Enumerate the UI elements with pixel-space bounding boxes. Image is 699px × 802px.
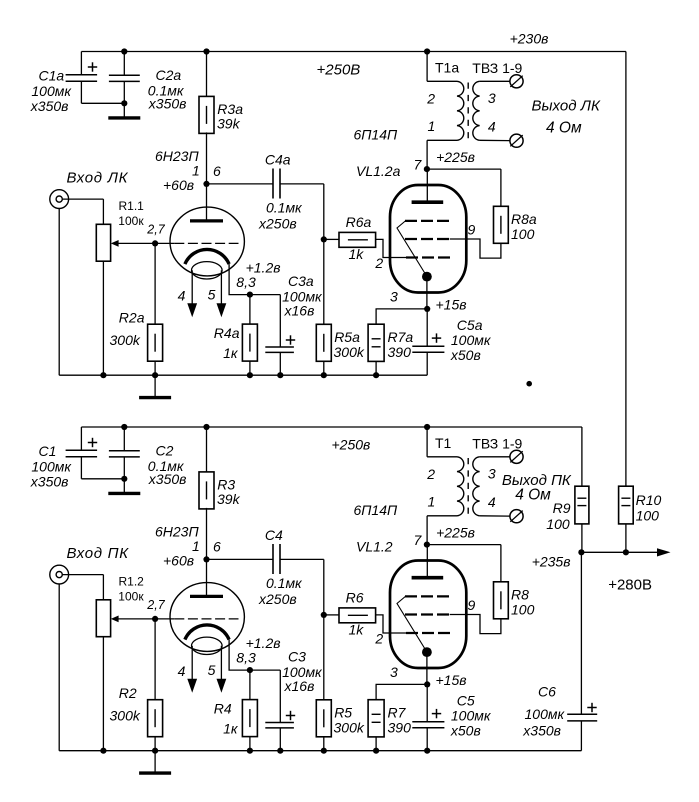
- svg-text:C3a: C3a: [288, 273, 314, 289]
- pentode grid2 dashes: [405, 238, 449, 240]
- svg-text:х350в: х350в: [522, 723, 561, 739]
- transformer Т1а secondary: [473, 81, 480, 140]
- svg-text:9: 9: [468, 221, 476, 237]
- capacitor C3a: [250, 294, 280, 296]
- wire: jack hot to pot top: [62, 574, 103, 576]
- capacitor C2: [123, 427, 125, 451]
- pentode grid1 dashes: [406, 256, 450, 258]
- svg-text:х250в: х250в: [258, 591, 297, 607]
- svg-text:100мк: 100мк: [525, 706, 566, 722]
- svg-text:C2: C2: [156, 442, 174, 458]
- output terminal bottom: [510, 510, 523, 523]
- svg-text:C6: C6: [538, 684, 556, 700]
- resistor R2: [154, 619, 156, 700]
- node: +235в junction at R9: [578, 549, 584, 555]
- node: C5 ground junction: [424, 748, 430, 754]
- transformer Т1а primary: [426, 52, 428, 82]
- triode anode lead: [206, 184, 208, 221]
- svg-text:+280В: +280В: [608, 576, 652, 593]
- svg-text:R7: R7: [388, 705, 407, 721]
- node: rail junction at C2: [121, 424, 127, 430]
- wire: node7 to R8 top: [427, 544, 501, 546]
- svg-text:4 Ом: 4 Ом: [546, 120, 582, 137]
- svg-text:R5: R5: [334, 705, 352, 721]
- node: rail junction at R3: [203, 48, 209, 54]
- triode cathode arc: [185, 625, 229, 640]
- svg-text:7: 7: [414, 532, 423, 548]
- triode grid dashed line: [155, 242, 174, 244]
- wire: pot bottom to ground rail: [102, 637, 104, 751]
- node: anode +60в junction: [203, 556, 209, 562]
- node: pot ground junction: [100, 748, 106, 754]
- svg-text:6: 6: [213, 539, 221, 555]
- svg-text:7: 7: [414, 157, 423, 173]
- arrow to +280В supply: [657, 548, 671, 556]
- svg-text:1: 1: [428, 494, 436, 510]
- potentiometer R1.1: [96, 224, 110, 261]
- wire: wiper to grid node: [118, 618, 155, 620]
- svg-text:3: 3: [488, 466, 496, 482]
- resistor R2a: [154, 243, 156, 324]
- capacitor C5: [426, 684, 428, 721]
- stray junction dot: [526, 381, 532, 387]
- svg-text:3: 3: [390, 288, 398, 304]
- heater arrow pin 4: [187, 679, 197, 693]
- triode anode lead: [206, 559, 208, 596]
- resistor R6a: [324, 238, 339, 240]
- svg-text:+225в: +225в: [436, 149, 475, 165]
- triode heater ellipse: [192, 637, 223, 654]
- wire: wiper to grid node: [118, 242, 155, 244]
- svg-text:5: 5: [208, 287, 216, 303]
- svg-text:х50в: х50в: [450, 723, 481, 739]
- node: C1/C2 ground junction: [121, 476, 127, 482]
- svg-text:х350в: х350в: [148, 96, 187, 112]
- svg-text:Вход ПК: Вход ПК: [67, 545, 130, 562]
- svg-text:х350в: х350в: [30, 98, 69, 114]
- resistor R7: [376, 683, 428, 685]
- wire: R10 bottom to +235в node: [625, 524, 627, 552]
- transformer core: [467, 458, 469, 514]
- transformer core: [467, 83, 469, 139]
- pentode grid2 dashes: [405, 613, 449, 615]
- node: C3 ground junction: [277, 372, 283, 378]
- heater arrow pin 4: [187, 303, 197, 317]
- capacitor C3: [250, 669, 280, 671]
- node: R7 ground junction: [373, 748, 379, 754]
- node: anode node 7: [424, 542, 430, 548]
- svg-text:6П14П: 6П14П: [354, 502, 399, 518]
- svg-text:2: 2: [426, 91, 435, 107]
- pentode grid1 dashes: [406, 632, 450, 634]
- capacitor C1a: [80, 52, 82, 75]
- node: grid node 2,7: [152, 616, 158, 622]
- svg-text:0.1мк: 0.1мк: [266, 575, 303, 591]
- node: grid node 2,7: [152, 240, 158, 246]
- capacitor C2a: [123, 52, 125, 76]
- output terminal top: [510, 450, 523, 463]
- ground under C2: [123, 479, 125, 494]
- resistor R6: [324, 614, 339, 616]
- resistor R9: [575, 486, 589, 524]
- svg-text:100мк: 100мк: [31, 459, 72, 475]
- node: cathode junction 8,3: [247, 667, 253, 673]
- pentode anode bar: [412, 576, 444, 580]
- wire: bottom rail corner down to R9: [581, 427, 583, 486]
- svg-text:R6: R6: [346, 590, 364, 606]
- wire: screen grid pin 9 to R8 bottom: [450, 615, 501, 634]
- svg-text:Т1а: Т1а: [435, 60, 459, 76]
- svg-text:2,7: 2,7: [146, 223, 165, 237]
- ground symbol below R2: [154, 751, 156, 773]
- heater lead pin 5: [220, 646, 222, 680]
- svg-text:2,7: 2,7: [146, 598, 165, 612]
- svg-text:R6a: R6a: [346, 214, 372, 230]
- resistor R5a: [323, 239, 325, 324]
- node: rail junction at transformer: [424, 424, 430, 430]
- resistor R10: [619, 486, 634, 524]
- resistor R5: [323, 615, 325, 700]
- resistor R8a: [494, 206, 509, 243]
- svg-text:C2a: C2a: [156, 67, 182, 83]
- svg-text:4: 4: [488, 494, 496, 510]
- node: rail junction at R3: [203, 424, 209, 430]
- svg-text:+15в: +15в: [436, 672, 467, 688]
- pentode grid3 dashes: [405, 220, 449, 222]
- svg-text:R3: R3: [217, 476, 235, 492]
- svg-text:39k: 39k: [217, 116, 241, 132]
- node: R4 ground junction: [247, 372, 253, 378]
- svg-text:R4a: R4a: [214, 325, 240, 341]
- node: cathode node +15в: [424, 306, 430, 312]
- svg-text:4 Ом: 4 Ом: [515, 486, 551, 503]
- svg-text:R7a: R7a: [388, 329, 414, 345]
- node: grid junction of output tube: [321, 236, 327, 242]
- resistor R3: [206, 427, 208, 472]
- svg-text:+250в: +250в: [332, 436, 371, 452]
- pentode g3-cathode tie: [397, 221, 427, 277]
- svg-text:х250в: х250в: [258, 216, 297, 232]
- wire: +250V supply rail (right channel): [81, 426, 582, 428]
- wire: node7 to R8 top: [427, 168, 501, 170]
- svg-text:VL1.2: VL1.2: [356, 539, 393, 555]
- triode anode bar: [190, 595, 223, 598]
- svg-text:1: 1: [428, 118, 436, 134]
- wire: cathode to 8,3 node: [229, 264, 250, 295]
- svg-text:1k: 1k: [349, 622, 365, 638]
- transformer Т1 secondary: [473, 457, 480, 516]
- wire: screen grid pin 9 to R8 bottom: [450, 239, 501, 258]
- svg-text:х16в: х16в: [284, 303, 315, 319]
- svg-text:R9: R9: [553, 500, 571, 516]
- node: cathode junction 8,3: [247, 292, 253, 298]
- triode heater ellipse: [192, 262, 223, 279]
- node: grid junction of output tube: [321, 612, 327, 618]
- output terminal top: [510, 75, 523, 88]
- svg-text:C5a: C5a: [457, 317, 483, 333]
- svg-text:C4: C4: [265, 527, 283, 543]
- pentode anode lead: [426, 169, 428, 202]
- wire: right bus +230в down to R10: [625, 52, 627, 487]
- node: cathode node +15в: [424, 681, 430, 687]
- svg-text:C5: C5: [457, 693, 475, 709]
- svg-text:R1.1: R1.1: [119, 199, 145, 213]
- output terminal bottom: [510, 134, 523, 147]
- svg-text:ТВЗ 1-9: ТВЗ 1-9: [472, 60, 522, 76]
- svg-text:100: 100: [511, 601, 535, 617]
- svg-text:4: 4: [178, 663, 186, 679]
- node: R5 ground junction: [321, 748, 327, 754]
- node: C3 ground junction: [277, 748, 283, 754]
- svg-text:R10: R10: [636, 492, 662, 508]
- svg-text:+225в: +225в: [436, 525, 475, 541]
- svg-text:300k: 300k: [110, 332, 141, 348]
- svg-text:C1a: C1a: [39, 68, 65, 84]
- pentode anode lead: [426, 545, 428, 578]
- node: C1/C2 ground junction: [121, 100, 127, 106]
- wire: cathode to +15в node: [426, 652, 428, 684]
- node: R7 ground junction: [373, 372, 379, 378]
- node: R5 ground junction: [321, 372, 327, 378]
- wire: R9 bottom to +235в node: [581, 524, 583, 552]
- capacitor C1: [80, 427, 82, 450]
- svg-text:R5a: R5a: [334, 329, 360, 345]
- node: anode +60в junction: [203, 181, 209, 187]
- svg-text:1к: 1к: [223, 721, 239, 737]
- wiper arrow of R1.1: [111, 240, 119, 247]
- svg-text:х16в: х16в: [284, 678, 315, 694]
- svg-text:8,3: 8,3: [236, 274, 256, 290]
- wire: jack ground to ground rail: [58, 584, 60, 751]
- heater lead pin 4: [191, 270, 193, 304]
- svg-text:R2: R2: [119, 685, 137, 701]
- wire: jack ground to ground rail: [58, 209, 60, 376]
- potentiometer R1.2: [96, 600, 110, 637]
- triode anode bar: [190, 219, 223, 222]
- svg-text:2: 2: [374, 255, 383, 271]
- svg-text:R8: R8: [511, 587, 529, 603]
- ground symbol below R2: [154, 375, 156, 397]
- pentode grid3 dashes: [405, 595, 449, 597]
- svg-text:+1.2в: +1.2в: [246, 259, 281, 275]
- svg-text:0.1мк: 0.1мк: [266, 200, 303, 216]
- ground under C2: [123, 103, 125, 118]
- svg-text:х50в: х50в: [450, 347, 481, 363]
- svg-text:R4: R4: [214, 700, 232, 716]
- svg-text:ТВЗ 1-9: ТВЗ 1-9: [472, 435, 522, 451]
- svg-text:100к: 100к: [118, 214, 144, 228]
- node: R4 ground junction: [247, 748, 253, 754]
- triode grid dashed line: [155, 618, 174, 620]
- transformer Т1 primary: [426, 427, 428, 457]
- svg-text:R1.2: R1.2: [119, 574, 145, 588]
- svg-text:4: 4: [178, 287, 186, 303]
- svg-text:+15в: +15в: [436, 296, 467, 312]
- svg-text:R8a: R8a: [511, 211, 537, 227]
- triode 6Н23П envelope (right channel): [170, 583, 244, 652]
- pentode VL1.2 envelope: [390, 561, 466, 669]
- svg-text:39k: 39k: [217, 491, 241, 507]
- svg-text:R3a: R3a: [217, 101, 243, 117]
- resistor R4: [249, 670, 251, 700]
- svg-text:3: 3: [488, 90, 496, 106]
- svg-text:390: 390: [388, 344, 412, 360]
- svg-text:100мк: 100мк: [451, 332, 492, 348]
- node: +235в junction at R10: [623, 549, 629, 555]
- heater arrow pin 5: [217, 679, 227, 693]
- svg-text:+60в: +60в: [163, 177, 194, 193]
- node: R2 ground junction: [152, 372, 158, 378]
- node: R2 ground junction: [152, 748, 158, 754]
- svg-text:100к: 100к: [118, 589, 144, 603]
- pentode cathode dot: [422, 647, 432, 657]
- svg-text:Т1: Т1: [435, 435, 452, 451]
- node: rail junction at transformer: [424, 48, 430, 54]
- svg-text:C4a: C4a: [265, 151, 291, 167]
- node: rail junction at C2: [121, 48, 127, 54]
- wire: jack hot to pot top: [62, 198, 103, 200]
- svg-text:C1: C1: [39, 443, 57, 459]
- node: pot ground junction: [100, 372, 106, 378]
- svg-text:300k: 300k: [334, 344, 365, 360]
- capacitor C4a: [207, 183, 274, 185]
- resistor R4a: [249, 295, 251, 325]
- svg-text:4: 4: [488, 119, 496, 135]
- resistor R7a: [376, 308, 428, 310]
- svg-text:100мк: 100мк: [451, 708, 492, 724]
- svg-text:+250В: +250В: [317, 61, 361, 78]
- svg-text:+230в: +230в: [510, 31, 549, 47]
- resistor R8: [494, 582, 509, 619]
- svg-text:VL1.2a: VL1.2a: [356, 163, 401, 179]
- svg-text:9: 9: [468, 597, 476, 613]
- svg-text:6: 6: [213, 163, 221, 179]
- svg-text:х350в: х350в: [148, 471, 187, 487]
- heater lead pin 5: [220, 270, 222, 304]
- wire: +250V supply rail (left channel): [81, 51, 626, 53]
- svg-text:100: 100: [511, 226, 535, 242]
- capacitor C6: [580, 552, 582, 714]
- svg-text:8,3: 8,3: [236, 650, 256, 666]
- svg-text:6П14П: 6П14П: [354, 127, 399, 143]
- triode 6Н23П envelope (left channel): [170, 207, 244, 276]
- wire: ground rail (right channel): [59, 750, 581, 752]
- wire: pot bottom to ground rail: [102, 261, 104, 375]
- triode cathode arc: [185, 249, 229, 264]
- svg-text:100: 100: [636, 508, 660, 524]
- node: anode node 7: [424, 166, 430, 172]
- capacitor C4: [207, 558, 274, 560]
- svg-text:100мк: 100мк: [31, 83, 72, 99]
- input RCA jack: [50, 565, 69, 584]
- svg-text:100: 100: [546, 516, 570, 532]
- svg-text:2: 2: [426, 466, 435, 482]
- svg-text:R2a: R2a: [119, 310, 145, 326]
- wiper arrow of R1.2: [111, 616, 119, 623]
- wire: ground rail (left channel): [59, 374, 427, 376]
- svg-text:х350в: х350в: [30, 473, 69, 489]
- pentode VL1.2a envelope: [390, 185, 466, 293]
- svg-text:C3: C3: [288, 649, 306, 665]
- svg-text:+60в: +60в: [163, 553, 194, 569]
- heater lead pin 4: [191, 646, 193, 680]
- resistor R3a: [206, 52, 208, 97]
- svg-text:1к: 1к: [223, 345, 239, 361]
- svg-text:5: 5: [208, 662, 216, 678]
- svg-text:2: 2: [374, 631, 383, 647]
- svg-text:300k: 300k: [110, 708, 141, 724]
- svg-text:+235в: +235в: [532, 554, 571, 570]
- capacitor C5a: [426, 309, 428, 346]
- wire: +235в feed line: [581, 551, 659, 553]
- wire: cathode to 8,3 node: [229, 640, 250, 671]
- svg-text:3: 3: [390, 664, 398, 680]
- svg-text:Выход ЛК: Выход ЛК: [532, 97, 601, 114]
- wire: cathode to +15в node: [426, 277, 428, 309]
- svg-text:+1.2в: +1.2в: [246, 635, 281, 651]
- pentode anode bar: [412, 200, 444, 204]
- svg-text:300k: 300k: [334, 720, 365, 736]
- svg-text:Вход ЛК: Вход ЛК: [67, 170, 129, 187]
- svg-text:1k: 1k: [349, 246, 365, 262]
- pentode g3-cathode tie: [397, 597, 427, 653]
- heater arrow pin 5: [217, 303, 227, 317]
- svg-text:390: 390: [388, 720, 412, 736]
- input RCA jack: [50, 190, 69, 209]
- pentode cathode dot: [422, 272, 432, 282]
